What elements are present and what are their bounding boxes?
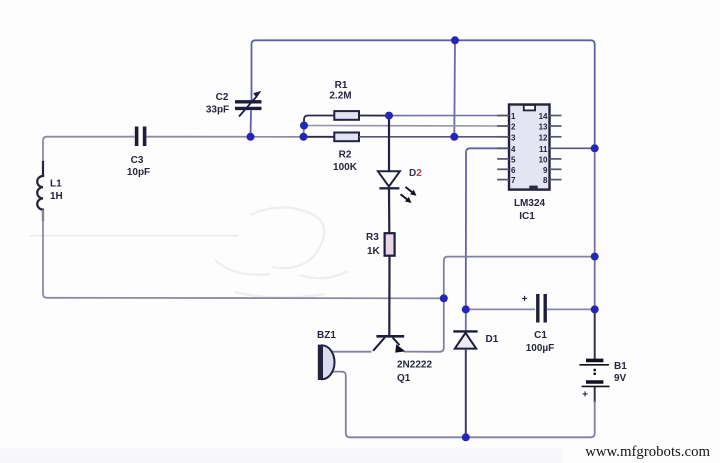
svg-text:12: 12 bbox=[539, 133, 548, 142]
svg-text:13: 13 bbox=[539, 123, 548, 132]
wire: D2 branch top bbox=[388, 116, 390, 172]
wire: main row left with L1 loop bbox=[43, 137, 135, 176]
wire: R1 right lead to node bbox=[359, 115, 389, 117]
wire: C1 row right bbox=[547, 308, 595, 310]
svg-text:+: + bbox=[522, 294, 528, 305]
wire: right rail pin11 node to mid node bbox=[594, 148, 596, 256]
svg-text:100K: 100K bbox=[333, 162, 358, 173]
svg-text:1: 1 bbox=[511, 112, 516, 121]
wire: R3 to Q1 base bbox=[388, 256, 390, 337]
wire: L1 bottom down and long bottom-left bus bbox=[43, 210, 444, 299]
svg-text:C2: C2 bbox=[216, 92, 229, 103]
svg-text:BZ1: BZ1 bbox=[317, 330, 336, 341]
svg-text:100µF: 100µF bbox=[526, 343, 555, 354]
svg-text:10pF: 10pF bbox=[127, 167, 150, 178]
svg-text:B1: B1 bbox=[614, 361, 627, 372]
svg-text:4: 4 bbox=[511, 145, 516, 154]
svg-text:R1: R1 bbox=[335, 80, 348, 91]
svg-text:1K: 1K bbox=[367, 246, 381, 257]
resistor R2 bbox=[334, 133, 359, 142]
wire: C3 to C2/R nodes bbox=[147, 136, 304, 138]
capacitor C3 bbox=[137, 127, 145, 147]
svg-text:9V: 9V bbox=[614, 373, 627, 384]
wire: R2 right lead to pin3 bbox=[359, 136, 509, 138]
wire: R2 left lead bbox=[304, 136, 335, 138]
svg-text:2.2M: 2.2M bbox=[329, 91, 351, 102]
svg-text:LM324: LM324 bbox=[514, 198, 546, 209]
wire: R1 node to pin1 bbox=[389, 115, 509, 117]
variable capacitor C2 bbox=[235, 91, 262, 117]
wire: C1 row left bbox=[466, 308, 535, 310]
wire: top bus right half down right rail bbox=[455, 40, 595, 148]
wire: bottom bus to buzzer lower terminal bbox=[331, 372, 466, 438]
pin numbers left bbox=[511, 112, 516, 185]
svg-text:7: 7 bbox=[511, 176, 516, 185]
transistor Q1 bbox=[373, 336, 405, 352]
wire: buzzer top terminal to Q1 collector bbox=[331, 351, 372, 353]
wire: x455 vertical top bus to pin3 row bbox=[453, 40, 456, 137]
svg-text:11: 11 bbox=[539, 145, 548, 154]
svg-text:9: 9 bbox=[543, 166, 548, 175]
buzzer BZ1 bbox=[322, 345, 335, 379]
svg-text:C1: C1 bbox=[534, 330, 547, 341]
wire: D2 to R3 bbox=[388, 188, 390, 233]
svg-text:+: + bbox=[582, 390, 588, 401]
svg-text:14: 14 bbox=[539, 112, 548, 121]
wire: pin11 to right rail bbox=[550, 147, 595, 149]
wire: battery bottom to bottom bus corner bbox=[594, 387, 596, 404]
diode D1 bbox=[453, 309, 477, 437]
svg-text:D1: D1 bbox=[486, 334, 499, 345]
wire: mid row corner to right rail bbox=[444, 257, 595, 295]
wire: R1 left lead bbox=[304, 116, 334, 126]
svg-text:33pF: 33pF bbox=[206, 105, 229, 116]
svg-text:C3: C3 bbox=[131, 155, 144, 166]
svg-text:2N2222: 2N2222 bbox=[397, 360, 432, 371]
svg-text:1H: 1H bbox=[50, 191, 63, 202]
capacitor C1 bbox=[538, 294, 545, 323]
pin stubs left bbox=[497, 116, 509, 180]
resistor R3 bbox=[385, 233, 395, 256]
svg-text:www.mfgrobots.com: www.mfgrobots.com bbox=[585, 444, 710, 460]
wire: right rail mid node to C1 node bbox=[594, 257, 596, 310]
svg-text:3: 3 bbox=[511, 133, 516, 142]
inductor L1 bbox=[37, 161, 43, 221]
svg-text:6: 6 bbox=[511, 166, 516, 175]
svg-text:R3: R3 bbox=[366, 232, 379, 243]
svg-text:Q1: Q1 bbox=[397, 373, 411, 384]
svg-text:D2: D2 bbox=[409, 168, 422, 179]
svg-text:10: 10 bbox=[539, 155, 548, 164]
wire: emitter riser bbox=[404, 298, 444, 352]
pin numbers right bbox=[539, 112, 548, 185]
wire: C2 top branch to top bus bbox=[252, 40, 456, 100]
wire: pin4 branch down to D1 node bbox=[466, 148, 509, 309]
wire: C2 bottom lead bbox=[250, 110, 253, 137]
svg-text:IC1: IC1 bbox=[519, 211, 535, 222]
battery B1 bbox=[579, 360, 609, 386]
svg-text:5: 5 bbox=[511, 155, 516, 164]
wire: right rail C1 node to battery top bbox=[594, 309, 596, 359]
svg-text:2: 2 bbox=[511, 123, 516, 132]
resistor R1 bbox=[334, 111, 359, 120]
svg-text:L1: L1 bbox=[50, 179, 62, 190]
wire: middle row to pin2 bbox=[304, 125, 509, 128]
pin stubs right bbox=[550, 116, 562, 180]
svg-text:8: 8 bbox=[543, 176, 548, 185]
wire: node split vertical (R branch) bbox=[303, 126, 306, 137]
svg-text:R2: R2 bbox=[339, 150, 352, 161]
faint artifact line bbox=[30, 235, 238, 237]
op-amp U1 LM324 body bbox=[509, 105, 550, 190]
LED D2 bbox=[378, 171, 417, 203]
